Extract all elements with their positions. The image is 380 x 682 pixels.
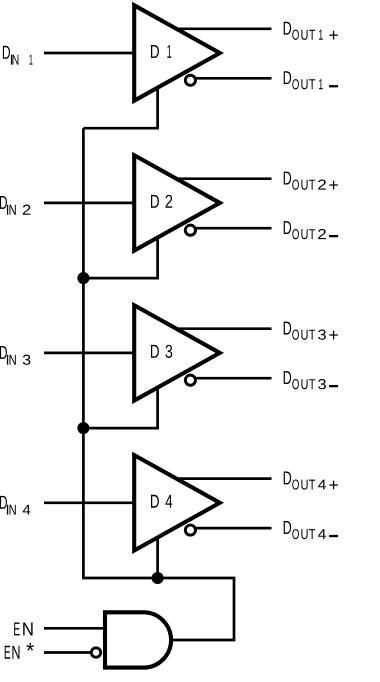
label D1 xyxy=(151,45,171,58)
inverting output bubble D3 xyxy=(185,375,195,385)
label DOUT1- xyxy=(284,71,338,89)
label DOUT3- xyxy=(284,371,338,389)
label DOUT1+ xyxy=(284,22,338,40)
wire DOUT2+ output xyxy=(162,177,272,180)
wire D2 enable stub xyxy=(83,233,157,278)
junction dot D4 enable xyxy=(152,572,164,584)
inverting output bubble D4 xyxy=(185,525,195,535)
wire DIN4 input xyxy=(44,501,136,504)
label DIN3 xyxy=(0,346,30,365)
label DOUT2- xyxy=(284,221,338,239)
junction dot D2 enable xyxy=(77,272,89,284)
and-gate U1 xyxy=(105,612,171,667)
label DIN4 xyxy=(0,496,30,515)
label D4 xyxy=(151,495,172,508)
inverting output bubble D1 xyxy=(185,75,195,85)
wire DOUT1+ output xyxy=(162,27,272,30)
inverting input bubble EN* xyxy=(91,648,100,657)
junction dot D3 enable xyxy=(77,422,89,434)
driver D2 xyxy=(134,155,220,250)
wire DOUT3- output xyxy=(190,377,272,380)
wire D1 enable stub xyxy=(83,83,157,128)
driver D3 xyxy=(134,305,220,400)
wire DIN2 input xyxy=(44,202,136,205)
wire DOUT4- output xyxy=(190,527,272,530)
wire DOUT3+ output xyxy=(162,327,272,330)
wire DIN1 input xyxy=(44,52,136,55)
driver D1 xyxy=(134,5,220,100)
inverting output bubble D2 xyxy=(185,225,195,235)
label EN* xyxy=(5,643,34,659)
label D2 xyxy=(151,195,172,208)
label DOUT2+ xyxy=(284,172,338,190)
label DIN2 xyxy=(0,196,30,215)
wire DIN3 input xyxy=(44,352,136,355)
wire enable bus xyxy=(83,128,234,640)
wire DOUT4+ output xyxy=(162,477,272,480)
wire EN* input xyxy=(44,651,90,654)
label DOUT4- xyxy=(284,521,338,539)
label DOUT4+ xyxy=(284,472,338,490)
label EN xyxy=(14,623,32,636)
label DOUT3+ xyxy=(284,322,338,340)
driver D4 xyxy=(134,455,220,550)
wire D4 enable stub xyxy=(156,533,159,578)
wire DOUT1- output xyxy=(190,77,272,80)
wire EN input xyxy=(44,627,105,630)
label DIN1 xyxy=(3,46,33,65)
wire D3 enable stub xyxy=(83,383,157,428)
wire DOUT2- output xyxy=(190,227,272,230)
label D3 xyxy=(151,345,172,358)
